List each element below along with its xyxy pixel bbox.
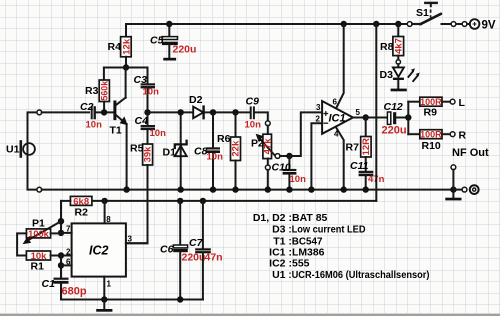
svg-text:6: 6	[333, 98, 338, 107]
pin 5	[356, 108, 361, 117]
label C7	[189, 237, 204, 249]
resistor R5	[127, 144, 153, 243]
wire out riser	[407, 102, 409, 135]
svg-text:U1: U1	[272, 269, 286, 281]
svg-text:D3: D3	[380, 69, 394, 81]
value 4k7	[394, 38, 405, 54]
label R5	[130, 143, 144, 155]
svg-text:NF Out: NF Out	[452, 147, 489, 159]
label C6	[160, 244, 174, 256]
svg-text:IC2: IC2	[89, 244, 109, 258]
diode D2	[193, 107, 249, 119]
svg-text:6: 6	[66, 258, 71, 267]
svg-text:C4: C4	[135, 115, 149, 127]
value 12R	[361, 138, 372, 156]
label P2	[251, 138, 264, 150]
resistor R7	[361, 118, 371, 172]
label R	[459, 130, 467, 142]
node R4 bottom	[123, 64, 129, 70]
label R7	[346, 142, 360, 154]
resistor R2	[61, 196, 92, 205]
wire pin7 stub	[61, 232, 72, 234]
IC2 timer 555	[72, 223, 126, 276]
label C12	[384, 101, 403, 113]
ground D3	[391, 89, 407, 92]
label C1	[42, 278, 56, 290]
capacitor C4	[141, 112, 155, 144]
transistor T1	[115, 98, 127, 125]
wire IC1 pin6 riser	[336, 24, 343, 108]
svg-text:220u: 220u	[382, 125, 407, 137]
terminal circle top	[37, 110, 42, 115]
terminal circle jack	[462, 187, 467, 192]
pin 6	[333, 98, 338, 107]
capacitor C12	[366, 112, 409, 124]
svg-text:680p: 680p	[62, 286, 87, 298]
svg-text:C9: C9	[246, 96, 260, 108]
node C6 tap	[177, 198, 183, 204]
value 10n	[143, 87, 160, 98]
pin 2	[316, 115, 321, 124]
value 220u	[382, 125, 407, 137]
node pin5	[363, 114, 369, 120]
label C10	[272, 162, 291, 174]
label C4	[135, 115, 149, 127]
led D3	[393, 64, 404, 88]
jack double circle	[470, 185, 479, 194]
wire IC2 Vcc rail	[92, 200, 376, 202]
resistor R6	[231, 112, 241, 189]
svg-text:R9: R9	[424, 107, 438, 119]
svg-text:C2: C2	[80, 101, 94, 113]
scanner edge strip bottom	[0, 313, 500, 316]
svg-text:R6: R6	[217, 133, 231, 145]
wire wiper to IC1 pin3	[289, 112, 322, 156]
label L	[459, 97, 466, 109]
value 10n	[290, 174, 307, 185]
node NF gnd	[450, 186, 456, 192]
label R10	[422, 140, 441, 152]
wire T1 emitter to ground rail	[126, 124, 128, 190]
capacitor C11	[359, 172, 374, 190]
wire IC2 pin8	[104, 201, 106, 224]
wire IC1 pin2 to ground	[311, 123, 322, 189]
terminal circle	[451, 22, 456, 27]
value 10k	[31, 251, 48, 262]
svg-text:47n: 47n	[205, 252, 223, 264]
battery plus symbol	[467, 19, 479, 29]
value 6k8	[73, 196, 89, 207]
svg-text:R10: R10	[422, 140, 441, 152]
svg-text:10n: 10n	[207, 152, 224, 163]
node D1 top	[178, 109, 184, 115]
terminal circle R8/D3	[396, 60, 400, 64]
node C5 tap	[166, 21, 172, 27]
label T1	[110, 125, 122, 137]
svg-text:R: R	[459, 130, 467, 142]
node pin7	[58, 230, 64, 236]
capacitor C1	[54, 279, 204, 300]
svg-text:D2: D2	[189, 94, 203, 106]
svg-text:4k7: 4k7	[394, 38, 405, 54]
svg-text:10n: 10n	[86, 120, 103, 131]
svg-text:R1: R1	[31, 261, 45, 273]
node C10 gnd	[286, 186, 292, 192]
wire U1 top riser	[28, 112, 37, 143]
svg-text:R8: R8	[380, 41, 394, 53]
label 9V	[482, 20, 496, 32]
svg-text:4: 4	[334, 130, 339, 139]
pin 2	[66, 248, 71, 257]
sensor U1	[21, 142, 35, 157]
svg-text:22k: 22k	[231, 140, 242, 157]
legend line 6	[272, 269, 429, 281]
node R6 gnd	[232, 186, 238, 192]
node R6 top	[232, 109, 238, 115]
resistor R10	[408, 130, 450, 139]
node R3 bottom	[101, 109, 107, 115]
value 47k	[262, 138, 273, 155]
svg-text:D1: D1	[163, 147, 177, 159]
resistor R8	[393, 24, 404, 59]
D3 light arrows	[408, 68, 420, 82]
resistor R1	[26, 251, 61, 260]
value 100k	[28, 229, 50, 239]
terminal circle bottom	[37, 187, 42, 192]
svg-text:1: 1	[107, 280, 112, 289]
svg-text:10n: 10n	[150, 128, 167, 139]
wire ground rail main	[42, 189, 454, 191]
capacitor C6	[173, 201, 188, 300]
svg-text:R5: R5	[130, 143, 144, 155]
resistor R3	[99, 80, 109, 112]
wire to jack	[453, 189, 462, 191]
node C3/C4	[144, 109, 150, 115]
wire to R3	[103, 68, 105, 81]
label IC2	[89, 244, 109, 258]
terminal R	[450, 132, 455, 137]
node pin6	[58, 262, 64, 268]
label C5	[150, 35, 164, 47]
node P1 wiper tap	[58, 218, 64, 224]
value 10n	[150, 128, 167, 139]
svg-text::Low current LED: :Low current LED	[289, 224, 366, 236]
terminal L	[450, 99, 455, 104]
svg-text:R2: R2	[75, 207, 89, 219]
svg-text:10n: 10n	[290, 174, 307, 185]
label C8	[194, 146, 208, 158]
pin 3	[316, 103, 321, 112]
wire T1 collector riser	[125, 68, 127, 98]
wire IC1 pin4 to ground	[336, 128, 343, 190]
label R6	[217, 133, 231, 145]
label C2	[80, 101, 94, 113]
node C12 out	[405, 114, 411, 120]
node pin4 gnd	[341, 186, 347, 192]
svg-text:7: 7	[66, 225, 71, 234]
label IC1	[329, 113, 346, 125]
wire Vcc riser to IC2 rail	[375, 24, 377, 201]
svg-text:C6: C6	[160, 244, 174, 256]
pin 4	[334, 130, 339, 139]
value 10n	[245, 120, 262, 131]
legend line 3	[273, 236, 322, 248]
value 220u	[182, 252, 206, 264]
svg-text:IC1: IC1	[329, 113, 346, 125]
potentiometer P2	[263, 121, 272, 190]
wire to C2	[42, 111, 89, 113]
svg-text:100R: 100R	[420, 130, 442, 140]
pin 6	[66, 258, 71, 267]
node C8 top	[210, 109, 216, 115]
node pin8 tap	[101, 198, 107, 204]
legend line 4	[269, 247, 324, 259]
svg-text:R4: R4	[108, 41, 122, 53]
svg-text:P1: P1	[32, 218, 45, 230]
legend line 5	[269, 258, 310, 270]
wire between terminals	[456, 23, 462, 25]
label U1	[6, 144, 20, 156]
label C11	[350, 160, 369, 172]
P1 wiper arrow	[23, 221, 61, 244]
resistor R4	[121, 24, 132, 68]
svg-text:IC2: IC2	[269, 258, 286, 270]
svg-text:C12: C12	[384, 101, 403, 113]
label D3	[380, 69, 394, 81]
node C6 gnd	[177, 296, 183, 302]
svg-text:220u: 220u	[173, 44, 197, 56]
svg-text:C5: C5	[150, 35, 164, 47]
label NF Out	[452, 147, 489, 159]
value 12k	[121, 38, 132, 55]
svg-text:3: 3	[128, 235, 133, 244]
resistor R9	[408, 97, 450, 106]
label R8	[380, 41, 394, 53]
label R2	[75, 207, 89, 219]
svg-text:T1: T1	[110, 125, 122, 137]
value 22k	[231, 140, 242, 157]
value 10n	[207, 152, 224, 163]
label R3	[85, 85, 99, 97]
node pin2	[58, 252, 64, 258]
op-amp IC1	[322, 101, 353, 134]
value 100R	[420, 130, 442, 140]
switch S1	[407, 3, 441, 27]
wire IC2 pin3	[126, 242, 148, 244]
value 47n	[368, 174, 385, 185]
svg-text::UCR-16M06 (Ultraschallsensor): :UCR-16M06 (Ultraschallsensor)	[289, 269, 430, 281]
svg-text:10n: 10n	[245, 120, 262, 131]
svg-text:C10: C10	[272, 162, 291, 174]
ground C5	[163, 58, 176, 61]
svg-text:S1: S1	[416, 7, 429, 19]
value 680p	[62, 286, 87, 298]
svg-text:12R: 12R	[361, 138, 372, 156]
legend line 2	[272, 224, 366, 236]
ground NF	[445, 190, 461, 201]
node D1 gnd	[178, 186, 184, 192]
node C7 tap	[200, 198, 206, 204]
svg-text:3: 3	[316, 103, 321, 112]
svg-text:C7: C7	[189, 237, 204, 249]
svg-text:100R: 100R	[420, 97, 442, 107]
node Vcc riser tap	[373, 21, 379, 27]
wire pin6 stub	[61, 264, 72, 266]
wire base rail	[104, 67, 148, 69]
svg-text:12k: 12k	[121, 38, 132, 55]
legend line 1	[253, 212, 328, 224]
node R8 tap	[395, 21, 401, 27]
potentiometer P1	[17, 229, 61, 256]
node C11 gnd	[363, 186, 369, 192]
node IC1 pin6 riser tap	[341, 21, 347, 27]
svg-text:R7: R7	[346, 142, 360, 154]
svg-text:U1: U1	[6, 144, 20, 156]
svg-text::BAT 85: :BAT 85	[289, 212, 328, 224]
label D1	[163, 147, 177, 159]
node pin1 gnd	[101, 296, 107, 302]
label D2	[189, 94, 203, 106]
ground IC2	[96, 300, 112, 312]
svg-text:39k: 39k	[143, 146, 154, 163]
svg-text:560k: 560k	[99, 81, 109, 101]
value 47n	[205, 252, 223, 264]
svg-text:100k: 100k	[28, 229, 50, 239]
pin 3	[128, 235, 133, 244]
node P2 gnd	[265, 186, 271, 192]
value 39k	[143, 146, 154, 163]
label S1	[416, 7, 429, 19]
capacitor C5	[162, 24, 178, 58]
svg-text:C1: C1	[42, 278, 56, 290]
terminal circle	[462, 22, 467, 27]
pin 1	[107, 280, 112, 289]
P2 wiper arrow	[256, 134, 289, 158]
capacitor C8	[206, 112, 220, 189]
ground rail	[28, 145, 37, 190]
capacitor C2	[92, 106, 114, 119]
wire node to D2	[148, 111, 194, 113]
svg-text:C3: C3	[134, 74, 148, 86]
node pin2 gnd	[308, 186, 314, 192]
capacitor C10	[283, 156, 297, 190]
value 10n	[86, 120, 103, 131]
wire R2 left riser	[60, 201, 62, 233]
node P2 wiper	[286, 153, 292, 159]
capacitor C3	[141, 68, 155, 113]
svg-text:C11: C11	[350, 160, 369, 172]
wire +9V top rail	[126, 23, 409, 25]
label R4	[108, 41, 122, 53]
label P1	[32, 218, 45, 230]
wire pin2 to pin6 to C1	[60, 256, 62, 279]
svg-text:2: 2	[66, 248, 71, 257]
svg-text:D3: D3	[272, 224, 286, 236]
NF shield terminal	[451, 165, 456, 190]
value 220u	[173, 44, 197, 56]
svg-text::555: :555	[289, 258, 310, 270]
svg-text:9V: 9V	[482, 20, 496, 32]
value 100R	[420, 97, 442, 107]
pin 7	[66, 225, 71, 234]
wire IC2 pin1	[103, 277, 105, 300]
svg-text:2: 2	[316, 115, 321, 124]
label R1	[31, 261, 45, 273]
svg-text:5: 5	[356, 108, 361, 117]
svg-text:47k: 47k	[262, 138, 273, 155]
value 560k	[99, 81, 109, 101]
svg-text:10n: 10n	[143, 87, 160, 98]
wire IC1 pin5	[353, 117, 366, 119]
capacitor C9	[251, 106, 268, 121]
capacitor C7	[195, 201, 211, 300]
wire switch to battery	[442, 23, 451, 25]
wire pin2 stub	[61, 255, 72, 257]
diode D1 zener	[175, 112, 187, 189]
label C3	[134, 74, 148, 86]
node C8 gnd	[210, 186, 216, 192]
label C9	[246, 96, 260, 108]
svg-text:R3: R3	[85, 85, 99, 97]
svg-text:L: L	[459, 97, 466, 109]
pin 8	[106, 215, 111, 224]
node T1 emitter	[123, 186, 129, 192]
label R9	[424, 107, 438, 119]
svg-text:D1, D2: D1, D2	[253, 212, 286, 224]
